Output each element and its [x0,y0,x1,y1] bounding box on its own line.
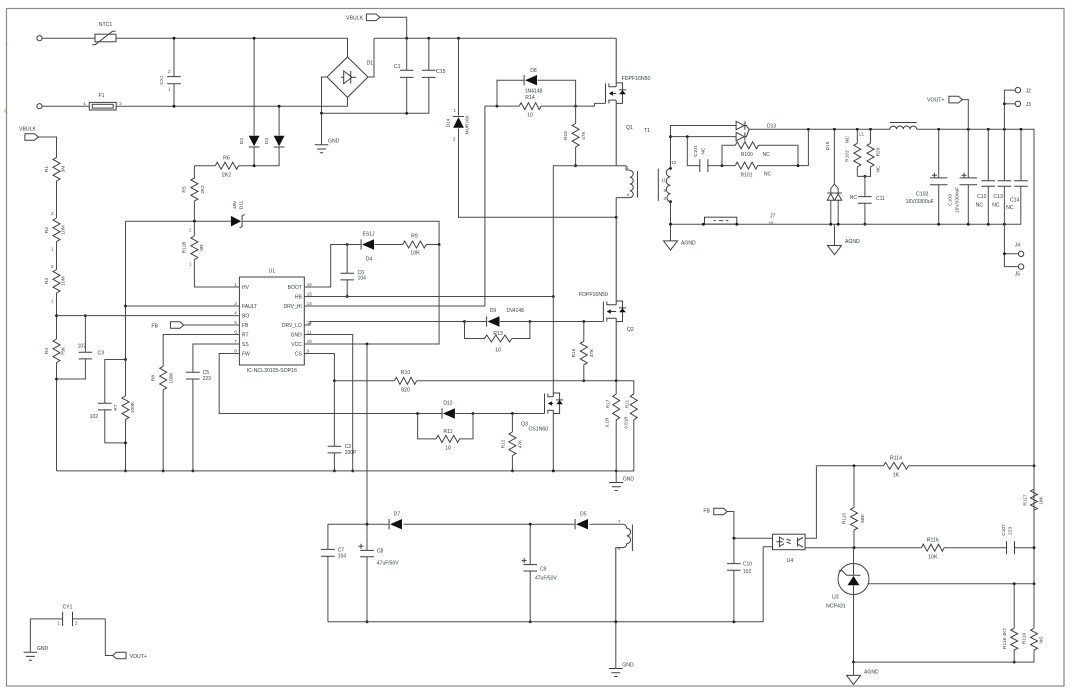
svg-text:AGND: AGND [864,670,879,676]
svg-text:104: 104 [358,276,367,282]
svg-text:ES1J: ES1J [363,232,375,238]
svg-text:J3: J3 [1026,102,1032,108]
svg-text:102: 102 [90,414,99,420]
wire DC+ top rail [374,37,616,39]
svg-text:Q2: Q2 [627,327,634,333]
svg-text:DRV_LO: DRV_LO [282,323,302,329]
svg-text:C107: C107 [1001,524,1007,536]
svg-text:C10: C10 [743,562,752,568]
wire D12 to Q3 gate [473,413,545,415]
svg-text:IC-NCL30125-SOP16: IC-NCL30125-SOP16 [247,368,297,374]
wire DRV_LO net [304,322,603,326]
wire DRV_HI riser [304,106,497,306]
svg-text:10K: 10K [928,555,938,561]
op-amp U1 IC-NCL30125-SOP16 [239,277,304,365]
diode D5 [576,519,588,529]
svg-text:18: 18 [768,221,774,226]
svg-text:10M: 10M [61,225,67,234]
svg-text:FDPF16N50: FDPF16N50 [579,292,608,298]
wire AC line 1 [42,38,347,57]
svg-text:R4: R4 [44,348,50,354]
diode D7 [390,519,402,529]
resistor R14 [497,105,576,107]
svg-text:U1: U1 [268,269,275,275]
svg-text:10R: 10R [410,251,420,257]
svg-text:C103: C103 [948,194,954,206]
resistor R101 [758,129,809,165]
svg-text:0R: 0R [199,244,205,251]
svg-text:10M: 10M [61,276,67,285]
svg-text:NC: NC [976,202,984,208]
resistor R116 [944,547,1006,549]
svg-text:3M: 3M [61,166,67,173]
dual diode D13 [736,121,745,129]
resistor R6 [194,165,254,167]
wire U3 ref row [868,583,1034,585]
svg-text:NC: NC [763,152,771,158]
transistor Q2 FDPF16N50 [602,302,604,322]
resistor R13 [465,322,530,339]
transformer T1 aux winding [616,524,631,622]
power flag VOUT+ bottom left [105,619,112,656]
wire zener D11 net [126,221,440,244]
svg-text:16V/3300uF: 16V/3300uF [955,187,961,213]
diode D4 ES1J [347,244,403,246]
svg-text:CS: CS [295,352,303,358]
wire primary ground rail [57,470,617,472]
svg-text:AGND: AGND [845,239,860,245]
svg-text:R1: R1 [44,166,50,172]
svg-text:GND: GND [37,646,49,652]
svg-text:J7: J7 [770,214,776,220]
svg-text:100K: 100K [169,372,175,384]
svg-text:C101: C101 [693,145,699,157]
resistor R3 [56,293,58,316]
capacitor C10 [733,538,735,622]
svg-text:D9: D9 [490,308,497,314]
resistor R102 [856,129,858,176]
svg-text:1N4148: 1N4148 [525,89,543,95]
capacitor C8 [366,524,368,622]
svg-text:R115: R115 [842,513,848,524]
resistor R21 [616,381,634,471]
wire FW net [219,354,417,414]
resistor R1 [38,137,56,218]
svg-text:223: 223 [1008,527,1014,535]
wire CS pin 9 [304,354,334,381]
svg-text:820: 820 [401,388,410,394]
svg-text:R100: R100 [741,152,753,158]
svg-text:NC: NC [1039,636,1045,643]
svg-text:C14: C14 [1010,197,1020,203]
svg-text:16: 16 [307,282,313,287]
svg-text:R11: R11 [443,429,452,435]
ground GND near bridge [321,113,323,145]
svg-text:102: 102 [78,344,87,350]
ground GND main [615,471,617,483]
ground GND CY1 [29,619,31,652]
resistor R15 [575,106,577,166]
wire VBULK to rail [380,17,407,38]
connector J3 [1004,103,1015,105]
transistor Q3 CS1N60 [544,394,546,414]
svg-text:D1: D1 [367,61,374,67]
svg-text:C12: C12 [977,194,987,200]
resistor R114 [884,462,909,469]
connector J2 [1004,90,1015,129]
resistor R2 [56,242,58,270]
svg-text:47uF/50V: 47uF/50V [535,576,557,582]
svg-text:R8: R8 [151,375,157,381]
svg-text:C7: C7 [338,548,345,554]
svg-text:C3: C3 [98,351,105,357]
resistor R11B 0R [194,221,239,287]
capacitor C3 [57,316,86,379]
wire AGND row bottom [854,661,1015,663]
ground GND aux [615,622,617,669]
shunt regulator U3 NCP431 [838,564,869,595]
resistor R118 4K7 [1013,584,1015,662]
resistor R12 [511,414,513,471]
capacitor C107 [1015,547,1035,549]
svg-text:MUR160: MUR160 [465,115,471,134]
svg-text:330P: 330P [345,450,357,456]
svg-text:NC: NC [701,147,707,154]
svg-text:D11: D11 [239,200,245,209]
capacitor C102 [938,129,940,224]
connector J1 pin 1 [37,36,42,41]
wire FAULT net vertical [125,221,127,359]
dual diode D15 [831,129,838,224]
svg-text:D12: D12 [443,401,452,407]
wire VCC net [304,245,439,345]
svg-text:D13: D13 [767,124,776,130]
svg-text:GND: GND [623,476,635,482]
wire opto collector riser [805,466,816,538]
svg-text:J2: J2 [1026,89,1032,95]
svg-text:R102: R102 [845,150,851,162]
wire FB to opto [727,512,772,539]
wire R14 to Q1 gate [576,103,606,106]
svg-text:R101: R101 [741,172,753,178]
svg-text:12: 12 [671,160,677,165]
svg-text:47uF/50V: 47uF/50V [377,561,399,567]
resistor R8 [162,390,164,471]
resistor R117 [1031,489,1038,510]
wire switch-node riser to Q3 drain [553,166,616,389]
wire R114 row [816,465,1034,467]
wire bridge right stub to DC+ rail [368,38,374,77]
svg-text:11: 11 [661,178,666,183]
svg-text:10: 10 [307,339,313,344]
svg-text:D8: D8 [530,68,537,74]
wire FAULT to pin 3 [126,305,240,307]
wire BOOT net [304,245,347,288]
svg-text:VCC: VCC [291,342,302,348]
svg-text:10: 10 [527,113,533,119]
svg-text:100K: 100K [130,401,136,413]
capacitor C11 [864,176,866,224]
svg-text:FW: FW [242,352,250,358]
svg-text:R5: R5 [182,186,188,192]
svg-text:D7: D7 [394,512,401,518]
svg-text:C11: C11 [876,196,885,202]
svg-text:47K: 47K [518,439,524,448]
svg-text:D15: D15 [825,141,831,150]
svg-text:NC: NC [850,195,858,201]
svg-text:75K: 75K [61,346,67,355]
svg-text:FDPF16N50: FDPF16N50 [622,76,651,82]
wire FB flag to pin 5 [184,324,240,326]
connector J1 pin 2 [37,104,42,109]
transformer T1 secondary winding [666,168,670,201]
svg-text:2K2: 2K2 [200,185,206,194]
svg-text:R12: R12 [501,439,507,448]
resistor R11 [418,414,473,439]
svg-text:C9: C9 [540,567,547,573]
wire output rail [749,129,1034,584]
svg-text:GND: GND [328,139,340,145]
capacitor C101 [687,137,735,166]
svg-text:Q3: Q3 [521,422,528,428]
svg-text:VBULK: VBULK [19,126,37,132]
svg-text:R15: R15 [563,131,569,140]
svg-text:14: 14 [307,301,313,306]
wire AC line 2 [42,97,347,106]
svg-text:NC: NC [876,165,882,172]
diode D2 [253,38,255,166]
svg-text:F1: F1 [98,93,104,99]
svg-text:VOUT+: VOUT+ [130,654,147,660]
wire VOUT+ drop [962,100,968,130]
fuse F1 [89,102,116,110]
capacitor CX1 [173,38,175,106]
svg-text:0.51R: 0.51R [623,416,628,429]
connector J5 [1018,264,1023,269]
svg-text:D5: D5 [580,512,587,518]
svg-text:R3: R3 [44,278,50,284]
svg-text:10: 10 [495,348,501,354]
svg-text:Q1: Q1 [626,125,633,131]
svg-text:R9: R9 [411,234,418,240]
svg-text:0.1R: 0.1R [605,417,610,427]
wire secondary lower tap to D13 [671,136,737,138]
wire DC- return [322,77,429,113]
wire GND pin 11 riser [304,335,352,471]
svg-text:D2: D2 [239,138,245,144]
svg-text:1N4148: 1N4148 [506,308,524,314]
svg-text:D14: D14 [446,118,452,127]
svg-text:R2: R2 [44,227,50,233]
svg-text:R7: R7 [113,404,119,410]
svg-text:VBULK: VBULK [346,16,364,22]
svg-text:NC: NC [992,202,1000,208]
svg-text:FAULT: FAULT [242,304,257,310]
diode D3 [254,106,279,166]
svg-text:NTC1: NTC1 [99,22,113,28]
wire aux ground rail [328,547,773,622]
svg-text:2K2: 2K2 [222,173,231,179]
svg-text:NC: NC [1006,205,1014,211]
svg-text:R10: R10 [401,370,411,376]
svg-text:18K: 18K [1039,495,1045,504]
diode D14 MUR160 [459,38,617,217]
svg-text:R6: R6 [223,156,230,162]
thermistor NTC1 [95,34,116,42]
svg-text:L1: L1 [859,132,864,137]
svg-text:47K: 47K [581,130,587,139]
svg-text:68K: 68K [860,513,866,522]
svg-text:FB: FB [703,508,710,514]
svg-text:102: 102 [743,569,752,575]
bridge rectifier D1 [327,57,368,97]
svg-text:DRV_HI: DRV_HI [284,304,302,310]
svg-text:GND: GND [291,333,303,339]
svg-text:RT: RT [242,333,249,339]
resistor R115 [853,466,855,548]
ground AGND bottom [853,662,855,675]
capacitor C4 102 [105,360,126,443]
diode D12 [418,413,473,415]
svg-text:C1: C1 [394,64,401,70]
svg-text:CY1: CY1 [63,605,73,611]
resistor R4 [56,316,58,471]
resistor R119 [1014,584,1034,662]
wire secondary pin12 riser [671,126,737,169]
svg-text:C102: C102 [916,192,929,198]
wire VCC to C8 aux riser [366,344,368,524]
diode D8 1N4148 [497,80,576,106]
svg-text:D3: D3 [264,138,270,144]
svg-text:R21: R21 [625,399,630,408]
svg-text:1K: 1K [893,473,900,479]
svg-text:223: 223 [203,376,212,382]
svg-text:C15: C15 [436,69,446,75]
wire bridge left stub to DC- [322,77,328,113]
resistor R7 [125,360,127,471]
svg-text:HB: HB [295,295,303,301]
svg-text:NC: NC [845,136,851,143]
svg-text:47K: 47K [589,348,595,357]
svg-text:11: 11 [307,329,312,334]
wire HB net [304,296,553,298]
capacitor C2 [333,381,335,471]
svg-text:J4: J4 [1015,243,1021,249]
svg-text:15: 15 [307,291,313,296]
wire RT to R8 [163,335,239,367]
svg-text:SS: SS [242,342,249,348]
zener diode D11 18V [231,216,241,227]
capacitor C1 [406,38,408,113]
wire SS to C5 [193,344,240,372]
svg-text:C13: C13 [993,194,1003,200]
svg-text:10: 10 [445,446,451,452]
svg-text:U3: U3 [832,595,839,601]
svg-text:HV: HV [242,285,250,291]
resistor R17 [615,381,617,471]
svg-text:R13: R13 [493,331,503,337]
svg-text:GND: GND [622,662,634,668]
transformer T1 core [638,169,659,202]
capacitor C7 [327,524,329,622]
svg-text:CS1N60: CS1N60 [529,427,549,433]
svg-text:R16: R16 [571,348,577,357]
svg-text:104: 104 [338,554,347,560]
wire BO net pin 4 [57,315,240,317]
svg-text:R117: R117 [1023,494,1029,505]
resistor R5 [193,166,195,222]
svg-text:R116: R116 [927,538,939,544]
svg-text:R20: R20 [876,147,882,156]
resistor R100 [722,145,798,165]
svg-text:NC: NC [764,172,772,178]
wire opto emitter row [805,547,921,549]
diode D9 1N4148 [465,321,530,323]
svg-text:R114: R114 [890,456,902,462]
capacitor C15 [428,38,430,70]
svg-text:R17: R17 [606,399,611,408]
capacitor CY1 [30,618,105,620]
inductor L1 [890,126,917,129]
svg-text:C8: C8 [377,549,384,555]
optocoupler U4 [773,534,806,550]
connector J4 [1004,224,1018,266]
svg-text:16V/3300uF: 16V/3300uF [906,199,934,205]
capacitor C14 [1020,129,1022,181]
resistor R20 [857,129,870,176]
svg-text:R14: R14 [525,95,535,101]
svg-text:J5: J5 [1015,272,1021,278]
svg-text:18V: 18V [232,200,238,209]
capacitor C13 [1003,129,1005,224]
capacitor C103 [967,129,969,224]
capacitor C5 [192,379,194,471]
ground AGND secondary left [670,224,672,241]
svg-text:R118 4K7: R118 4K7 [1002,628,1008,649]
svg-text:R11B: R11B [182,242,188,254]
transistor Q1 FDPF16N50 [605,83,607,103]
wire aux supply top [328,523,623,525]
svg-text:D4: D4 [366,257,373,263]
wire secondary pin8 to AGND rail [670,202,672,225]
svg-text:BO: BO [242,314,249,320]
svg-text:AGND: AGND [681,241,696,247]
resistor R10 [334,380,616,382]
resistor R16 [583,322,585,381]
svg-text:T1: T1 [644,128,650,134]
capacitor C6 [346,245,348,297]
svg-text:NCP431: NCP431 [826,604,846,610]
jumper J7 [705,217,737,224]
svg-text:BOOT: BOOT [288,285,302,291]
resistor R9 [426,244,439,246]
svg-text:FB: FB [242,323,249,329]
ground AGND under D15 [834,224,836,245]
capacitor C12 [987,129,989,224]
capacitor C9 [529,524,531,622]
wire AGND rail secondary [671,186,1021,224]
svg-text:FB: FB [151,323,158,329]
svg-text:U4: U4 [787,558,794,564]
svg-text:CX1: CX1 [159,75,165,85]
svg-text:VOUT+: VOUT+ [927,98,944,104]
transformer T1 primary winding [616,166,630,170]
svg-text:R119: R119 [1022,633,1028,644]
